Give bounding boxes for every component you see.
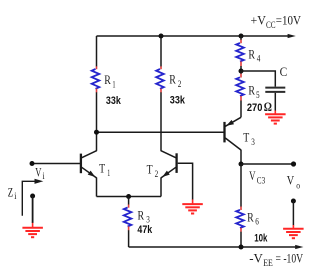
- ground input: [22, 228, 43, 237]
- wire -VEE rail: [129, 245, 304, 249]
- transistor T2 base bar: [175, 153, 177, 173]
- svg-text:+V: +V: [251, 12, 267, 27]
- pin R1 bottom lead: [96, 89, 98, 93]
- svg-text:33k: 33k: [106, 95, 122, 107]
- svg-text:47k: 47k: [137, 224, 153, 236]
- wire T1 base lead: [32, 163, 80, 165]
- wire collector bus to T3 base: [97, 131, 224, 133]
- svg-text:R: R: [104, 72, 111, 87]
- svg-text:3: 3: [251, 137, 255, 147]
- svg-text:V: V: [35, 165, 42, 180]
- wire R1 top: [96, 36, 98, 67]
- svg-text:T: T: [147, 161, 153, 176]
- label Zi: [8, 185, 17, 202]
- wire R3 top: [128, 197, 130, 205]
- svg-text:10k: 10k: [254, 232, 268, 244]
- wire T3 collector diagonal: [225, 138, 241, 150]
- svg-text:2: 2: [178, 79, 182, 89]
- svg-text:R: R: [169, 72, 176, 87]
- value 270 ohm: [247, 99, 272, 114]
- svg-text:Ω: Ω: [264, 99, 272, 114]
- wire R1 to node: [96, 92, 98, 151]
- label +VCC=10V: [251, 12, 302, 29]
- svg-text:1: 1: [107, 168, 110, 178]
- wire T2 collector diagonal: [161, 151, 176, 158]
- svg-text:i: i: [14, 191, 17, 201]
- svg-text:T: T: [99, 161, 105, 176]
- pin R5 top lead: [240, 74, 242, 78]
- junction R4-R5-C node: [239, 69, 244, 74]
- resistor R1: [92, 69, 100, 89]
- label R3: [138, 208, 151, 225]
- wire R6 top: [240, 164, 242, 207]
- resistor R5: [236, 77, 244, 96]
- wire C to ground: [274, 93, 276, 111]
- node Vo ground terminal: [291, 199, 296, 204]
- junction R6 rail: [239, 245, 244, 250]
- wire VC3 to output: [241, 163, 294, 165]
- wire T2 emitter down: [160, 178, 162, 197]
- svg-text:R: R: [248, 83, 255, 98]
- wire T3 collector down: [240, 150, 242, 164]
- ground capacitor: [265, 114, 286, 123]
- svg-text:33k: 33k: [170, 94, 186, 106]
- pin R1 top lead: [96, 66, 98, 69]
- wire R4 to node: [240, 66, 242, 71]
- label R5: [248, 83, 260, 100]
- junction R3 tap: [126, 194, 131, 199]
- svg-text:R: R: [138, 208, 145, 223]
- transistor T1 base bar: [80, 154, 82, 174]
- wire T3 emitter diagonal: [225, 117, 241, 126]
- wire +VCC rail: [97, 34, 296, 38]
- wire input ground: [32, 196, 34, 223]
- pin R3 bottom lead: [128, 226, 130, 230]
- junction node R1-bus: [94, 130, 99, 135]
- node Vi dot: [30, 161, 35, 166]
- svg-text:270: 270: [247, 102, 263, 114]
- svg-text:CC: CC: [266, 20, 276, 30]
- resistor R2: [156, 69, 164, 89]
- wire emitter bus: [97, 196, 162, 198]
- svg-text:o: o: [296, 180, 300, 190]
- node VC3 junction: [239, 162, 244, 167]
- resistor R4: [236, 43, 244, 62]
- pin R6 bottom lead: [240, 228, 242, 232]
- svg-text:EE: EE: [263, 258, 273, 268]
- pin input ground stub: [32, 223, 34, 228]
- transistor T3 base bar: [223, 122, 225, 142]
- wire T2 base lead: [178, 163, 193, 199]
- svg-text:V: V: [249, 168, 256, 183]
- wire R5 node stub: [240, 71, 242, 74]
- pin R2 bottom lead: [160, 89, 162, 93]
- label R4: [248, 46, 260, 63]
- pin C ground stub: [274, 111, 276, 115]
- node input ground terminal: [30, 194, 35, 199]
- svg-text:R: R: [247, 209, 254, 224]
- arrow Zi input: [22, 179, 43, 216]
- svg-text:-V: -V: [249, 250, 263, 265]
- wire R5 to T3 emitter: [240, 101, 242, 118]
- wire Vo ground: [292, 201, 294, 225]
- label VC3: [249, 168, 265, 185]
- capacitor C: [265, 88, 285, 92]
- svg-text:5: 5: [256, 90, 260, 100]
- resistor R6: [236, 210, 244, 228]
- svg-text:C: C: [280, 64, 288, 79]
- wire R4 top: [240, 36, 242, 40]
- svg-text:V: V: [287, 172, 295, 187]
- ground T2 base: [182, 204, 203, 213]
- pin R4 bottom lead: [240, 62, 242, 67]
- label R2: [169, 72, 181, 89]
- pin R6 top lead: [240, 207, 242, 211]
- label Vo: [287, 172, 301, 190]
- svg-text:R: R: [248, 46, 255, 61]
- wire T1 emitter down: [96, 178, 98, 197]
- svg-text:T: T: [243, 130, 249, 145]
- pin R2 top lead: [160, 66, 162, 69]
- label -VEE=-10V: [249, 250, 303, 267]
- svg-text:i: i: [43, 171, 46, 181]
- label R1: [104, 72, 115, 89]
- svg-text:= -10V: = -10V: [276, 250, 304, 265]
- node output terminal: [291, 161, 296, 166]
- svg-text:4: 4: [257, 54, 261, 64]
- pin T2 ground stub: [192, 199, 194, 204]
- ground Vo: [283, 229, 304, 238]
- wire R6 to VEE rail: [240, 232, 242, 247]
- pin R4 top lead: [240, 40, 242, 44]
- label Vi: [35, 165, 45, 181]
- wire T1 collector diagonal: [82, 151, 97, 158]
- pin R3 top lead: [128, 205, 130, 208]
- junction dot R2 rail: [159, 34, 164, 39]
- wire T1 emitter diagonal: [82, 167, 97, 178]
- label T1: [99, 161, 110, 179]
- svg-text:Z: Z: [8, 185, 13, 200]
- label R6: [247, 209, 259, 226]
- wire T2 emitter diagonal: [161, 167, 176, 178]
- wire R3 to VEE rail: [128, 230, 130, 247]
- svg-text:1: 1: [112, 79, 115, 89]
- svg-text:C3: C3: [257, 175, 266, 185]
- label T3: [243, 130, 255, 148]
- svg-text:6: 6: [255, 217, 259, 227]
- pin Vo ground stub: [292, 225, 294, 229]
- wire node to C: [241, 71, 275, 87]
- wire R2 to T2 collector: [160, 92, 162, 151]
- label T2: [147, 161, 159, 179]
- resistor R3: [124, 208, 132, 227]
- pin R5 bottom lead: [240, 96, 242, 101]
- svg-text:=10V: =10V: [276, 12, 302, 27]
- wire R2 top: [160, 36, 162, 67]
- junction R4 rail: [239, 34, 244, 39]
- svg-text:2: 2: [155, 169, 159, 179]
